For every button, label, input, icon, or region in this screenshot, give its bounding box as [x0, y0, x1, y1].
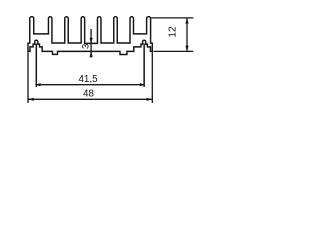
dim 48: [27, 52, 29, 103]
left solder pin: [35, 44, 37, 87]
svg-text:12: 12: [167, 26, 178, 38]
svg-text:48: 48: [83, 88, 94, 99]
svg-text:41,5: 41,5: [78, 74, 98, 85]
right solder pin: [143, 44, 145, 87]
dim 3: [90, 29, 92, 58]
heatsink profile outline: [28, 17, 152, 55]
dim 12: [151, 17, 193, 19]
svg-text:3: 3: [81, 44, 92, 49]
dim 41,5 line: [36, 84, 144, 86]
heatsink cross-section technical drawing: [0, 0, 198, 121]
